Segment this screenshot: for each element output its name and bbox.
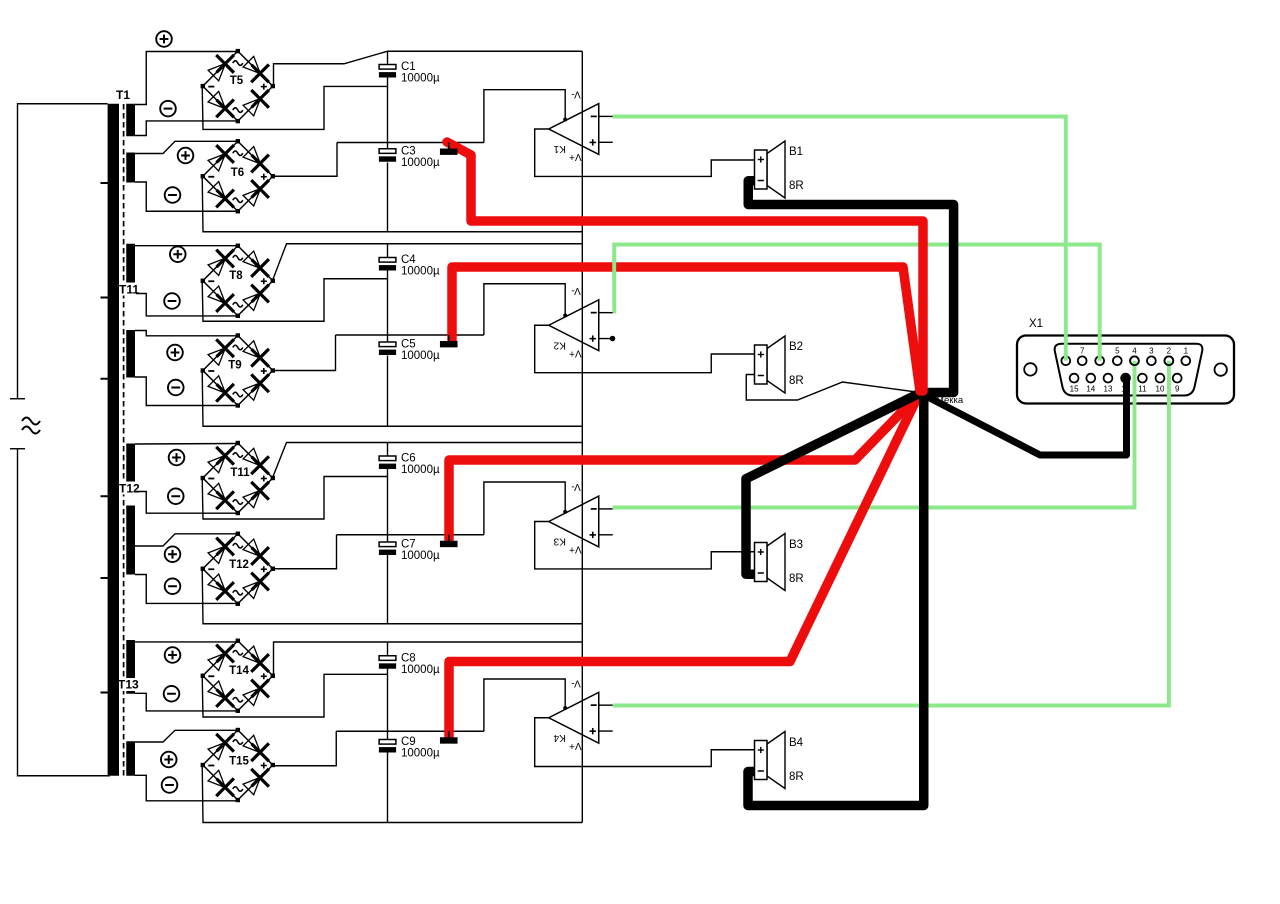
svg-text:8R: 8R — [789, 771, 804, 783]
svg-text:V+: V+ — [569, 740, 582, 751]
svg-text:C7: C7 — [401, 539, 416, 551]
svg-text:T12: T12 — [229, 559, 249, 571]
svg-text:4: 4 — [1132, 346, 1137, 355]
svg-text:T5: T5 — [230, 75, 244, 87]
svg-text:10000µ: 10000µ — [401, 73, 440, 85]
svg-text:10000µ: 10000µ — [401, 748, 440, 760]
svg-text:T15: T15 — [229, 756, 249, 768]
svg-text:3: 3 — [1149, 346, 1154, 355]
svg-text:K1: K1 — [553, 143, 566, 154]
svg-text:C9: C9 — [401, 736, 416, 748]
svg-text:K4: K4 — [553, 732, 566, 743]
svg-text:15: 15 — [1070, 385, 1079, 394]
svg-text:11: 11 — [1138, 385, 1147, 394]
svg-text:B2: B2 — [789, 341, 803, 353]
svg-text:T6: T6 — [231, 167, 244, 179]
svg-text:10000µ: 10000µ — [401, 550, 440, 562]
svg-text:V+: V+ — [569, 544, 582, 555]
svg-text:13: 13 — [1104, 385, 1113, 394]
svg-text:V-: V- — [571, 285, 580, 296]
svg-text:Мекка: Мекка — [936, 395, 964, 406]
svg-text:B4: B4 — [789, 737, 804, 749]
svg-text:10: 10 — [1156, 385, 1165, 394]
svg-text:8R: 8R — [789, 375, 804, 387]
svg-text:9: 9 — [1175, 385, 1180, 394]
svg-text:C1: C1 — [401, 61, 416, 73]
svg-text:1: 1 — [1184, 346, 1189, 355]
svg-text:V-: V- — [571, 677, 580, 688]
svg-text:T9: T9 — [228, 360, 241, 372]
svg-text:K2: K2 — [553, 339, 566, 350]
svg-text:8R: 8R — [789, 180, 804, 192]
svg-text:C6: C6 — [401, 453, 416, 465]
svg-text:T11: T11 — [230, 467, 250, 479]
svg-text:10000µ: 10000µ — [401, 266, 440, 278]
svg-text:5: 5 — [1115, 346, 1120, 355]
svg-text:T8: T8 — [229, 270, 243, 282]
svg-text:T13: T13 — [118, 678, 139, 692]
svg-text:10000µ: 10000µ — [401, 664, 440, 676]
svg-text:10000µ: 10000µ — [401, 464, 440, 476]
svg-text:C4: C4 — [401, 254, 416, 266]
svg-text:V+: V+ — [569, 347, 582, 358]
svg-text:8R: 8R — [789, 573, 804, 585]
svg-text:C8: C8 — [401, 653, 416, 665]
svg-text:V-: V- — [571, 481, 580, 492]
svg-text:7: 7 — [1080, 346, 1085, 355]
svg-text:10000µ: 10000µ — [401, 157, 440, 169]
svg-text:T12: T12 — [119, 482, 140, 496]
svg-text:T11: T11 — [119, 283, 139, 297]
svg-text:X1: X1 — [1029, 318, 1043, 330]
svg-text:B3: B3 — [789, 539, 803, 551]
svg-text:14: 14 — [1086, 385, 1095, 394]
svg-text:V-: V- — [571, 89, 580, 100]
svg-text:T1: T1 — [116, 88, 130, 102]
svg-text:C3: C3 — [401, 146, 416, 158]
svg-text:V+: V+ — [569, 151, 582, 162]
svg-text:10000µ: 10000µ — [401, 350, 440, 362]
svg-text:T14: T14 — [229, 665, 249, 677]
svg-text:C5: C5 — [401, 339, 416, 351]
svg-text:2: 2 — [1167, 346, 1172, 355]
svg-text:K3: K3 — [553, 536, 566, 547]
svg-text:B1: B1 — [789, 146, 803, 158]
